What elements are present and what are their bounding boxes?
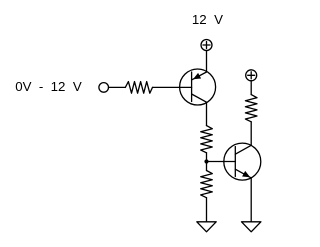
wire right terminal to R4	[250, 81, 252, 95]
input terminal	[99, 83, 109, 93]
ground G2	[242, 222, 261, 232]
node A junction	[204, 159, 208, 163]
svg-text:0V - 12 V: 0V - 12 V	[15, 79, 82, 94]
transistor Q2 NPN	[224, 143, 261, 180]
resistor R2	[201, 126, 213, 153]
wire R4 to Q2 collector	[250, 122, 252, 146]
wire node A to R3	[206, 162, 208, 171]
ground G1	[197, 222, 216, 232]
wire R3 to ground	[206, 198, 208, 222]
wire Q2 emitter to ground	[250, 178, 252, 222]
transistor Q1 PNP	[180, 69, 216, 105]
wire node A to Q2 base	[207, 161, 236, 163]
supply terminal right +	[246, 70, 257, 81]
wire Q1 collector to R2	[206, 102, 208, 125]
wire R2 to node A	[206, 153, 208, 162]
wire input to R1	[109, 86, 126, 88]
wire supply to Q1 emitter	[206, 51, 208, 73]
resistor R4	[245, 95, 257, 122]
resistor R3	[201, 171, 213, 198]
resistor R1	[125, 82, 152, 94]
supply terminal +12V	[201, 40, 212, 51]
svg-text:12 V: 12 V	[192, 12, 223, 27]
wire R1 to Q1 base	[153, 86, 192, 88]
